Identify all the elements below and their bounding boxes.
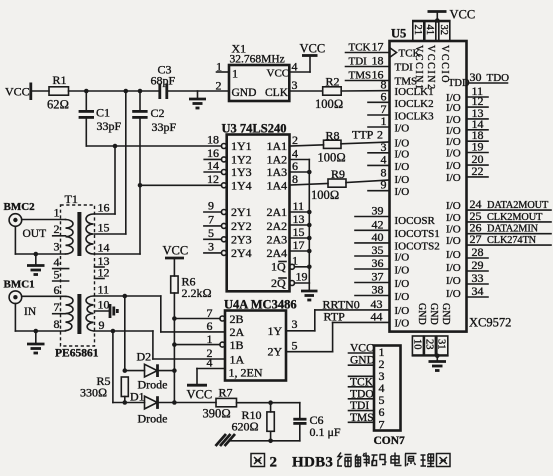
U3 pin 15 stub: [290, 225, 312, 240]
svg-text:10: 10: [98, 298, 110, 312]
T1 pin13 stub: [95, 254, 110, 268]
wire D2 anode row: [123, 368, 175, 373]
U5 pin36 IO: [355, 256, 409, 277]
U3 pin 14 bubble and stub: [204, 159, 226, 175]
svg-text:I/O: I/O: [446, 262, 461, 274]
svg-text:2A2: 2A2: [267, 219, 288, 233]
svg-text:2: 2: [270, 455, 278, 471]
U4A inside labels: [229, 312, 283, 380]
svg-text:I/O: I/O: [395, 252, 410, 264]
svg-text:15: 15: [98, 221, 110, 235]
svg-text:C2: C2: [151, 106, 165, 120]
svg-text:PE65861: PE65861: [55, 348, 99, 360]
svg-text:2Y2: 2Y2: [231, 219, 252, 233]
wire main to T1 pin15: [95, 91, 126, 234]
svg-text:17: 17: [372, 40, 384, 54]
svg-text:390Ω: 390Ω: [203, 407, 231, 421]
U3 pin 17 stub: [290, 238, 312, 253]
svg-text:2Y4: 2Y4: [231, 246, 252, 260]
capacitor C6: [293, 403, 341, 441]
T1 winding top-right: [86, 214, 94, 254]
VCC terminal left: [5, 83, 31, 101]
wire U3-1Y4 to C2/T1-14 vertical: [138, 183, 222, 188]
svg-text:15: 15: [293, 225, 305, 239]
T1 pin2 stub: [53, 222, 66, 236]
svg-text:4: 4: [292, 60, 298, 74]
CON7 pin6 TDI: [349, 400, 375, 412]
svg-text:I/O: I/O: [395, 186, 410, 198]
transformer T1 dashed box: [61, 192, 95, 346]
svg-text:1A4: 1A4: [267, 178, 288, 192]
svg-text:1: 1: [216, 60, 222, 74]
svg-text:7: 7: [208, 212, 214, 226]
svg-text:40: 40: [372, 230, 384, 244]
svg-text:9: 9: [99, 318, 105, 332]
X1 pin 3 wire: [289, 78, 322, 92]
slanted ground at R10/C6: [216, 434, 236, 446]
U5 pin8 IOCLK1: [381, 78, 434, 98]
svg-text:1A1: 1A1: [267, 139, 288, 153]
U5 pin18b IO: [446, 128, 488, 148]
svg-text:33pF: 33pF: [152, 120, 177, 134]
U5 top VCC rail: [413, 12, 450, 23]
svg-text:VCC: VCC: [163, 244, 189, 258]
ground under U3 bus: [301, 283, 318, 300]
svg-text:8: 8: [292, 172, 298, 186]
svg-text:19: 19: [296, 270, 308, 284]
svg-text:1Y3: 1Y3: [231, 165, 252, 179]
svg-text:30: 30: [470, 70, 482, 84]
wire U3 pin8 to R9: [290, 184, 329, 186]
svg-text:6: 6: [54, 283, 60, 297]
T1 winding top-left: [66, 220, 74, 255]
svg-text:18: 18: [207, 133, 219, 147]
svg-text:17: 17: [293, 238, 305, 252]
svg-text:IOCLK1: IOCLK1: [395, 86, 434, 98]
CON7 inside numbers: [379, 345, 385, 432]
svg-text:I/O: I/O: [446, 288, 461, 300]
svg-text:22: 22: [472, 164, 484, 178]
resistor R9: [311, 167, 346, 202]
X1 pin 1 stub: [216, 60, 229, 74]
wire T1 pin11 to U4A 2A: [95, 294, 226, 332]
U3 pin 4 number and stub to bus: [290, 147, 310, 161]
U3 pin 7 bubble and stub: [204, 212, 227, 228]
wire pin9 node down to D1: [112, 331, 114, 403]
U5 pin1 IO: [368, 114, 409, 135]
VCC symbol above R6: [163, 244, 189, 277]
U3 pin 1 bubble and stub: [290, 254, 312, 270]
U4A pin3 wire to U5 pin43: [286, 310, 390, 331]
svg-text:27: 27: [470, 232, 482, 246]
U5 bottom ground pins 10 23 31: [411, 336, 448, 355]
U3 inside label 2Q bar: [271, 276, 286, 290]
oscillator X1 32.768MHz: [229, 42, 289, 102]
svg-text:13: 13: [293, 212, 305, 226]
svg-text:XC9572: XC9572: [469, 316, 511, 330]
svg-text:RTP: RTP: [324, 309, 346, 323]
U5 bottom rail and ground: [412, 354, 447, 371]
svg-text:7: 7: [379, 418, 385, 432]
svg-text:330Ω: 330Ω: [80, 386, 107, 400]
svg-text:1, 2EN: 1, 2EN: [229, 366, 263, 380]
U3 inside labels 2A: [267, 205, 288, 260]
wire pin11 node down to R5/D2: [124, 296, 126, 371]
svg-text:1: 1: [381, 114, 387, 128]
svg-text:I/O: I/O: [395, 123, 410, 135]
svg-text:IN: IN: [24, 306, 37, 318]
svg-text:7: 7: [54, 300, 60, 314]
svg-text:2: 2: [292, 133, 298, 147]
wire R8 to U5 pin2 TTP: [341, 142, 390, 144]
svg-text:1Y: 1Y: [268, 324, 283, 338]
svg-text:I/O: I/O: [395, 291, 410, 303]
U5 pin28 IO: [446, 245, 488, 261]
U5 pin7 IOCLK3: [368, 102, 434, 123]
svg-text:VCC: VCC: [267, 68, 290, 80]
node junction C2/main: [138, 89, 143, 94]
U5 top power pins 21 41 32: [412, 22, 450, 42]
U5 pin20 IO: [446, 152, 488, 172]
connector BMC2: [4, 201, 47, 240]
hanzi dian: [391, 453, 402, 466]
svg-text:2.2kΩ: 2.2kΩ: [182, 286, 212, 300]
svg-text:1Y1: 1Y1: [231, 139, 252, 153]
svg-text:TCK: TCK: [399, 48, 421, 60]
svg-text:34: 34: [472, 284, 484, 298]
svg-text:I/O: I/O: [446, 125, 461, 137]
svg-text:6: 6: [207, 319, 213, 333]
svg-text:5: 5: [292, 339, 298, 353]
U4A pin7 bubble and stub: [174, 306, 225, 321]
U5 inside rotated GND labels: [416, 303, 451, 325]
svg-text:2Y: 2Y: [268, 345, 283, 359]
svg-text:Drode: Drode: [138, 412, 168, 426]
svg-text:1B: 1B: [230, 338, 244, 352]
svg-text:620Ω: 620Ω: [232, 420, 259, 434]
U5 pin13 IO: [446, 106, 488, 126]
wire D1 row: [113, 402, 216, 404]
wire R6 bottom vertical bias node: [172, 293, 177, 405]
svg-text:9: 9: [381, 178, 387, 192]
wire C6/R10 bottom to ground: [229, 439, 300, 444]
U3 inside label 1Q bar: [271, 260, 286, 274]
svg-text:12: 12: [98, 266, 110, 280]
T1 pin10 sideways ground: [95, 304, 118, 318]
U3 inside labels 1A: [267, 139, 288, 192]
U5 pin40 IOCOTS2: [355, 230, 440, 253]
U3 inside labels 2Y: [231, 205, 252, 260]
U4A pin4 wire to VCC: [197, 356, 225, 386]
T1 pin7 stub: [53, 300, 66, 314]
svg-text:R7: R7: [219, 386, 233, 400]
svg-text:GND: GND: [232, 87, 257, 99]
svg-text:2A3: 2A3: [267, 232, 288, 246]
svg-text:VCC: VCC: [187, 388, 213, 402]
svg-text:GND: GND: [416, 303, 427, 325]
wire R2 to U5 pin8: [341, 90, 389, 92]
U3 pin 9 bubble and stub: [204, 199, 227, 215]
svg-text:44: 44: [371, 309, 383, 323]
U5 pin8b IO: [381, 166, 410, 187]
U5 pin37 IO: [355, 270, 409, 291]
svg-text:I/O: I/O: [395, 318, 410, 330]
svg-text:BMC1: BMC1: [4, 279, 35, 291]
svg-text:I/O: I/O: [395, 265, 410, 277]
CON7 pin7 TMS: [349, 412, 375, 424]
U5 pin42 IOCOTS1: [355, 217, 440, 240]
wire U3-1Y1 net to C1 and T1-16: [86, 144, 221, 214]
svg-text:R8: R8: [326, 129, 340, 143]
U5 pin18 TDI: [346, 54, 414, 74]
svg-text:1: 1: [54, 206, 60, 220]
VCC symbol below U4A EN: [187, 385, 213, 401]
svg-text:3: 3: [208, 239, 214, 253]
node junction T1-15 vertical/main: [124, 89, 129, 94]
svg-text:11: 11: [98, 283, 110, 297]
resistor R5: [80, 374, 128, 405]
svg-text:1A: 1A: [230, 352, 245, 366]
U3 pin 18 bubble: [221, 144, 226, 149]
wire BMC1 shield to T1 pin8: [15, 304, 65, 334]
svg-text:BMC2: BMC2: [4, 201, 36, 213]
svg-text:VCC: VCC: [300, 42, 326, 56]
svg-text:3: 3: [292, 317, 298, 331]
U3 pin 16 bubble and stub: [204, 146, 226, 162]
diode D1: [130, 390, 168, 426]
svg-text:37: 37: [372, 270, 384, 284]
svg-text:I/O: I/O: [395, 278, 410, 290]
svg-text:I/O: I/O: [446, 212, 461, 224]
svg-text:100Ω: 100Ω: [318, 151, 346, 165]
svg-text:R9: R9: [331, 167, 345, 181]
svg-text:5: 5: [208, 226, 214, 240]
CPLD U5 XC9572: [390, 27, 467, 332]
U5 pin9 IO: [368, 178, 409, 199]
hanzi li: [421, 454, 435, 467]
wire BMC1 to T1 pin6: [22, 295, 66, 297]
U4A pin5 wire to U5 pin44: [286, 322, 390, 352]
VCC symbol above U5: [428, 8, 476, 22]
U5 pin27 CLK274TN: [446, 232, 551, 247]
U5 inside rotated VCCIN labels: [413, 45, 450, 91]
U5 pin26 DATA2MIN: [446, 221, 551, 236]
svg-text:I/O: I/O: [446, 224, 461, 236]
svg-text:28: 28: [472, 245, 484, 259]
hanzi yuan: [405, 454, 417, 467]
U4A pin1 bubble and stub: [174, 332, 225, 347]
U5 pin39 IOCOSR: [355, 204, 436, 228]
hanzi jie: [355, 453, 369, 467]
svg-text:TDI: TDI: [395, 62, 414, 74]
svg-text:IOCLK2: IOCLK2: [395, 98, 434, 110]
svg-text:VCC: VCC: [450, 8, 476, 22]
svg-text:I/O: I/O: [446, 160, 461, 172]
T1 pin12 stub: [95, 266, 110, 280]
svg-text:23: 23: [423, 339, 434, 350]
svg-text:GND: GND: [428, 303, 439, 325]
U5 pin29 IO: [446, 258, 488, 274]
U5 pin4 IO: [368, 152, 409, 173]
svg-text:31: 31: [436, 339, 447, 350]
svg-text:I/O: I/O: [395, 161, 410, 173]
capacitor C3: [151, 63, 176, 100]
svg-text:2Y3: 2Y3: [231, 232, 252, 246]
svg-text:I/O: I/O: [446, 249, 461, 261]
U5 pin33 IO: [446, 271, 488, 287]
svg-text:39: 39: [372, 204, 384, 218]
svg-text:41: 41: [424, 25, 435, 36]
resistor R2: [315, 75, 343, 112]
svg-text:OUT: OUT: [23, 228, 47, 240]
svg-text:I/O: I/O: [446, 172, 461, 184]
svg-text:1Y4: 1Y4: [231, 178, 252, 192]
U3 pin 19 bubble and stub: [290, 270, 310, 286]
U5 pin11 IO: [446, 84, 488, 104]
svg-text:4: 4: [381, 152, 387, 166]
svg-text:TTP: TTP: [352, 128, 374, 142]
T1 core bottom: [77, 294, 81, 334]
U5 pin2 TTP IO: [352, 128, 409, 150]
svg-text:14: 14: [98, 241, 110, 255]
CON7 pin3 stub: [349, 375, 375, 377]
svg-text:68pF: 68pF: [151, 74, 176, 88]
svg-text:2Y1: 2Y1: [231, 205, 252, 219]
T1 core top: [77, 212, 81, 256]
svg-text:I/O: I/O: [446, 275, 461, 287]
ground under BMC2: [27, 254, 45, 275]
svg-text:5: 5: [54, 268, 60, 282]
U3 pin 5 bubble and stub: [204, 226, 227, 242]
svg-text:100Ω: 100Ω: [315, 97, 343, 111]
U5 pin16 TMS: [346, 68, 418, 88]
ground on oscillator net: [189, 91, 206, 108]
svg-text:62Ω: 62Ω: [47, 98, 69, 112]
svg-text:11: 11: [293, 199, 305, 213]
capacitor C1: [79, 91, 122, 146]
svg-text:36: 36: [372, 256, 384, 270]
svg-text:VCC: VCC: [5, 85, 30, 99]
U3 pin 11 stub: [290, 199, 312, 214]
svg-text:U5: U5: [391, 27, 406, 41]
IC U3 74LS240: [222, 122, 290, 292]
U5 pin30 TDO: [448, 70, 509, 89]
svg-text:4: 4: [207, 356, 213, 370]
svg-text:33: 33: [472, 271, 484, 285]
resistor R10: [232, 403, 275, 441]
wire T1 pin9 to U4A 1A: [95, 329, 226, 359]
resistor R7: [203, 386, 237, 421]
svg-text:C1: C1: [96, 106, 110, 120]
svg-text:I/O: I/O: [446, 235, 461, 247]
U5 pin6 IOCLK2: [368, 89, 434, 110]
svg-text:10: 10: [411, 339, 422, 350]
CON7 pin5 TDO: [349, 388, 375, 400]
svg-text:2: 2: [54, 222, 60, 236]
U3 ground bus: [308, 160, 310, 284]
svg-text:I/O: I/O: [446, 200, 461, 212]
ground under BMC1: [27, 331, 45, 353]
U3 pin 12 bubble: [207, 172, 226, 188]
T1 pin4 stub: [53, 255, 69, 269]
svg-text:1: 1: [232, 67, 238, 81]
hanzi tu: [251, 454, 265, 467]
CON7 pin1 VCC: [349, 343, 375, 355]
svg-text:T1: T1: [65, 192, 78, 206]
U5 pin14 IO: [446, 117, 488, 137]
svg-text:I/O: I/O: [395, 148, 410, 160]
connector BMC1: [4, 279, 37, 319]
U3 pin 13 stub: [290, 212, 312, 227]
svg-text:1A3: 1A3: [267, 165, 288, 179]
svg-text:IOCOTS1: IOCOTS1: [395, 228, 440, 240]
CON7 pin2 GND: [349, 355, 375, 367]
wire R7 to R10/C6 node: [237, 400, 300, 405]
svg-text:R2: R2: [326, 75, 340, 89]
resistor R8: [318, 129, 346, 165]
svg-text:100Ω: 100Ω: [311, 188, 339, 202]
diode D2: [137, 350, 168, 392]
hanzi ma: [372, 455, 387, 467]
svg-text:1: 1: [292, 254, 298, 268]
svg-text:VCCIN2: VCCIN2: [425, 45, 436, 91]
svg-text:I/O: I/O: [446, 102, 461, 114]
wire VCC to R1: [31, 90, 49, 92]
U5 pin34 IO: [446, 284, 488, 300]
svg-text:HDB3: HDB3: [292, 455, 333, 471]
CON7 pin4 TCK: [349, 376, 375, 388]
svg-text:9: 9: [208, 199, 214, 213]
resistor R1: [47, 73, 69, 112]
U3 pin 6 number and stub to bus: [290, 159, 312, 174]
svg-text:8: 8: [54, 317, 60, 331]
wire BMC2 to T1 pin1: [22, 219, 66, 221]
resistor R6: [171, 275, 212, 301]
wire main oscillator net: [69, 90, 230, 92]
U5 pin19 IO: [446, 140, 488, 160]
svg-text:38: 38: [372, 283, 384, 297]
U5 pin3 IO: [368, 140, 409, 161]
svg-text:I/O: I/O: [446, 148, 461, 160]
svg-text:14: 14: [207, 159, 219, 173]
U5 pin17 TCK: [346, 40, 421, 60]
svg-text:D1: D1: [130, 390, 145, 404]
svg-text:35: 35: [372, 243, 384, 257]
T1 pin5 stub: [53, 268, 69, 282]
svg-text:R1: R1: [53, 73, 67, 87]
svg-text:32: 32: [438, 25, 449, 36]
connector CON7: [374, 346, 406, 448]
svg-text:CON7: CON7: [374, 435, 406, 447]
U5 pin24 DATA2MOUT: [446, 197, 551, 212]
svg-text:2B: 2B: [230, 312, 244, 326]
svg-text:I/O: I/O: [395, 174, 410, 186]
IC U4A MC3486: [224, 298, 297, 381]
svg-text:GND: GND: [440, 303, 451, 325]
svg-text:33pF: 33pF: [97, 119, 122, 133]
svg-text:IOCLK3: IOCLK3: [395, 111, 435, 123]
svg-text:D2: D2: [137, 350, 152, 364]
svg-text:16: 16: [98, 201, 110, 215]
capacitor C2: [95, 91, 177, 254]
svg-text:29: 29: [472, 258, 484, 272]
svg-text:2A1: 2A1: [267, 205, 288, 219]
svg-text:I/O: I/O: [395, 305, 410, 317]
wire R9 to U5 pin8b: [346, 180, 390, 183]
svg-text:2: 2: [216, 79, 222, 93]
svg-text:I/O: I/O: [446, 136, 461, 148]
T1 winding bottom-left: [66, 296, 74, 330]
